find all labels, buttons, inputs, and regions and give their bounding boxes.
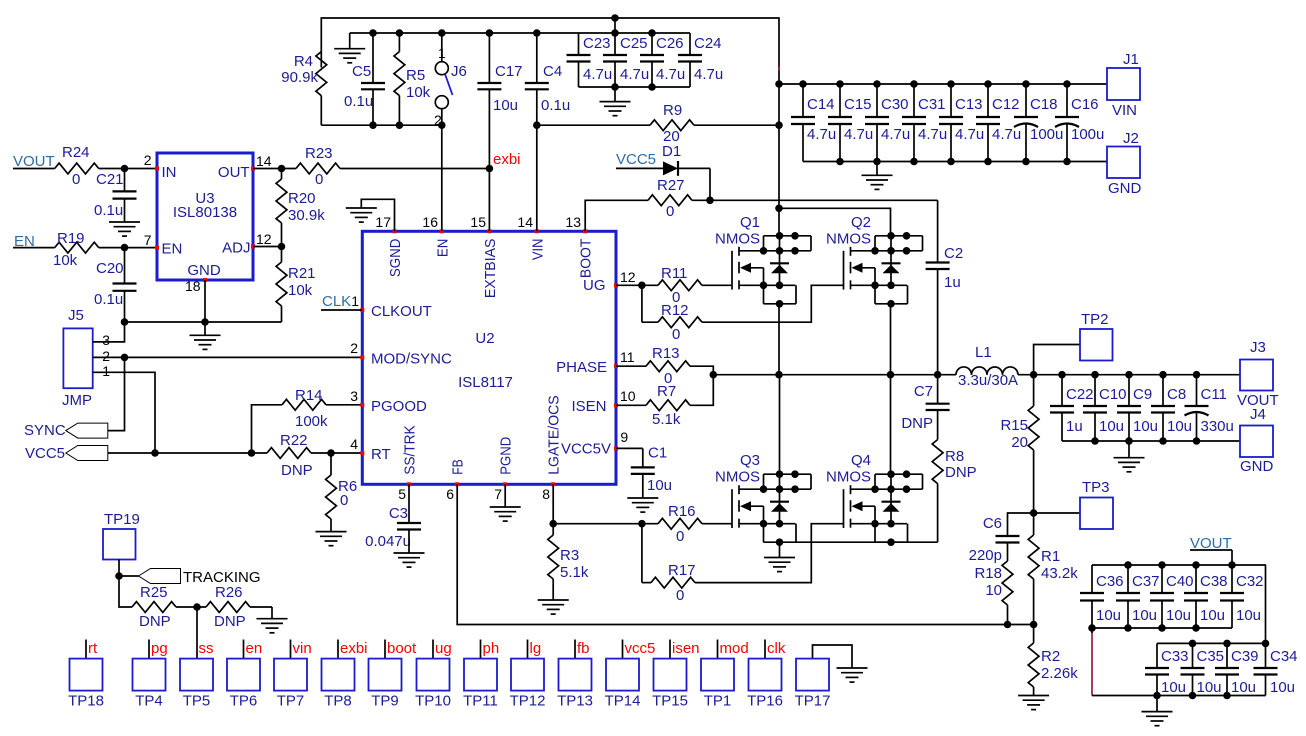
svg-text:C25: C25 xyxy=(620,35,648,52)
ground under C25 xyxy=(600,87,631,116)
net label VOUT at sense bank xyxy=(1190,535,1232,565)
svg-text:0: 0 xyxy=(666,203,674,220)
svg-text:rt: rt xyxy=(88,640,98,657)
resistor R6 xyxy=(326,453,358,532)
svg-text:R16: R16 xyxy=(668,503,696,520)
svg-text:lg: lg xyxy=(530,640,542,657)
svg-text:10u: 10u xyxy=(1099,418,1124,435)
svg-text:C23: C23 xyxy=(583,35,611,52)
wire R17 to Q4 gate xyxy=(695,524,844,583)
svg-text:C39: C39 xyxy=(1231,648,1259,665)
svg-text:NMOS: NMOS xyxy=(715,231,760,248)
svg-text:L1: L1 xyxy=(975,344,992,361)
svg-text:R19: R19 xyxy=(57,230,85,247)
svg-text:D1: D1 xyxy=(662,143,681,160)
svg-text:9: 9 xyxy=(620,429,628,445)
svg-text:10u: 10u xyxy=(1231,679,1256,696)
capacitor C22 xyxy=(1050,371,1094,441)
svg-text:TP17: TP17 xyxy=(795,693,831,710)
resistor R19 xyxy=(53,230,157,269)
test point TP4 xyxy=(133,640,168,710)
svg-text:C21: C21 xyxy=(96,171,124,188)
test point TP3 xyxy=(1030,479,1113,529)
svg-text:C37: C37 xyxy=(1132,573,1160,590)
connector J4 xyxy=(1240,406,1274,475)
svg-text:U2: U2 xyxy=(475,330,494,347)
test point TP1 xyxy=(701,640,749,710)
svg-text:C35: C35 xyxy=(1197,648,1225,665)
capacitor C37 xyxy=(1116,565,1160,628)
svg-text:C9: C9 xyxy=(1133,386,1152,403)
svg-text:TP12: TP12 xyxy=(510,693,546,710)
ground near C5 xyxy=(334,33,365,63)
svg-text:Q4: Q4 xyxy=(851,452,871,469)
connector J3 xyxy=(1237,339,1279,409)
svg-text:J3: J3 xyxy=(1250,339,1266,356)
test point TP16 xyxy=(747,640,786,710)
wire EN pin riser xyxy=(441,125,443,231)
wire sense bank top rail xyxy=(1092,561,1266,569)
svg-text:0: 0 xyxy=(72,171,80,188)
svg-text:C15: C15 xyxy=(844,96,872,113)
capacitor C9 xyxy=(1117,371,1158,441)
svg-text:TP18: TP18 xyxy=(68,693,104,710)
test point TP8 xyxy=(322,640,368,710)
svg-text:DNP: DNP xyxy=(214,613,246,630)
svg-text:exbi: exbi xyxy=(493,151,521,168)
svg-text:DNP: DNP xyxy=(139,613,171,630)
svg-text:C1: C1 xyxy=(648,445,667,462)
svg-text:1: 1 xyxy=(438,45,446,61)
ground SGND xyxy=(346,208,377,222)
wire ss to TP5 xyxy=(196,607,198,659)
wire output bank bottom rail xyxy=(1062,437,1240,445)
svg-text:ISEN: ISEN xyxy=(571,398,606,415)
svg-text:vcc5: vcc5 xyxy=(625,640,656,657)
svg-text:0: 0 xyxy=(340,492,348,509)
resistor R8 xyxy=(932,440,976,543)
test point TP17 xyxy=(795,645,852,710)
capacitor C13 xyxy=(939,80,984,161)
net label CLK xyxy=(321,293,362,310)
svg-text:R11: R11 xyxy=(661,265,687,282)
svg-text:RT: RT xyxy=(371,446,391,463)
svg-text:10u: 10u xyxy=(647,477,672,494)
resistor R13 xyxy=(616,345,713,387)
diode D1 xyxy=(662,143,710,176)
svg-text:VOUT: VOUT xyxy=(13,153,55,170)
wire Q1 to phase xyxy=(778,304,780,375)
svg-text:R1: R1 xyxy=(1041,548,1060,565)
test point TP9 xyxy=(369,640,418,710)
svg-text:C10: C10 xyxy=(1099,386,1127,403)
svg-text:4: 4 xyxy=(350,436,358,452)
resistor R7 xyxy=(616,375,713,428)
svg-text:10u: 10u xyxy=(1132,607,1157,624)
svg-text:10u: 10u xyxy=(1166,607,1191,624)
svg-text:1: 1 xyxy=(102,363,110,379)
IC U2 ISL8117 xyxy=(350,214,636,502)
svg-text:R21: R21 xyxy=(288,265,316,282)
svg-text:PGND: PGND xyxy=(498,437,515,475)
svg-text:5.1k: 5.1k xyxy=(652,411,681,428)
ground VIN bank xyxy=(862,162,893,190)
transistor Q4 xyxy=(826,452,923,546)
capacitor C34 xyxy=(1254,643,1298,696)
svg-text:ph: ph xyxy=(483,640,500,657)
svg-text:ug: ug xyxy=(435,640,452,657)
svg-text:12: 12 xyxy=(256,231,272,247)
svg-text:DNP: DNP xyxy=(945,464,977,481)
wire second rail xyxy=(350,32,690,34)
svg-text:TP10: TP10 xyxy=(415,693,451,710)
ground under C3 xyxy=(394,530,425,568)
svg-text:0: 0 xyxy=(672,326,680,343)
wire L1 to output rail xyxy=(1018,374,1240,376)
svg-text:R13: R13 xyxy=(652,345,680,362)
wire second sense bank bottom rail xyxy=(1092,692,1266,700)
svg-text:0.1u: 0.1u xyxy=(344,93,373,110)
svg-text:0: 0 xyxy=(315,171,323,188)
svg-text:Q1: Q1 xyxy=(740,214,760,231)
svg-text:C33: C33 xyxy=(1161,648,1189,665)
svg-text:IN: IN xyxy=(162,164,177,181)
svg-text:TP9: TP9 xyxy=(371,693,399,710)
test point TP12 xyxy=(510,640,546,710)
svg-text:R15: R15 xyxy=(1000,417,1028,434)
svg-text:C11: C11 xyxy=(1201,386,1227,403)
svg-text:4.7u: 4.7u xyxy=(807,126,836,143)
svg-text:FB: FB xyxy=(450,459,467,475)
resistor R17 xyxy=(642,524,696,604)
svg-text:C6: C6 xyxy=(983,515,1002,532)
ground under C21 xyxy=(109,199,140,237)
svg-text:J6: J6 xyxy=(451,63,467,80)
wire J5 pin1 to VCC5 xyxy=(93,372,159,457)
IC U3 ISL80138 xyxy=(144,152,272,294)
svg-text:R7: R7 xyxy=(657,383,676,400)
capacitor C20 xyxy=(94,248,137,322)
svg-text:Q3: Q3 xyxy=(740,452,760,469)
svg-text:TP6: TP6 xyxy=(230,693,258,710)
ground second sense bank xyxy=(1142,696,1173,726)
svg-text:NMOS: NMOS xyxy=(826,469,871,486)
svg-text:10u: 10u xyxy=(1167,418,1192,435)
svg-text:VCC5V: VCC5V xyxy=(561,441,611,458)
test point TP2 xyxy=(1034,311,1113,375)
svg-text:TP2: TP2 xyxy=(1081,311,1109,328)
wire link top wire to bank xyxy=(614,18,616,33)
resistor R22 xyxy=(267,432,362,479)
wire bank bottom rail xyxy=(579,29,691,91)
svg-text:1: 1 xyxy=(351,293,359,309)
transistor Q3 xyxy=(715,452,811,546)
svg-text:18: 18 xyxy=(185,278,201,294)
svg-text:C8: C8 xyxy=(1167,386,1186,403)
svg-text:EN: EN xyxy=(162,241,183,258)
svg-text:J1: J1 xyxy=(1123,51,1139,68)
svg-text:10k: 10k xyxy=(406,84,431,101)
ground under R2 xyxy=(1018,696,1049,710)
svg-text:90.9k: 90.9k xyxy=(281,69,318,86)
capacitor C12 xyxy=(976,80,1021,161)
capacitor C36 xyxy=(1080,565,1124,628)
svg-text:LGATE/OCS: LGATE/OCS xyxy=(546,395,563,475)
wire VIN feed xyxy=(533,121,650,129)
svg-text:43.2k: 43.2k xyxy=(1041,565,1078,582)
svg-text:TP15: TP15 xyxy=(652,693,688,710)
wire BOOT riser xyxy=(585,200,648,231)
svg-text:NMOS: NMOS xyxy=(715,469,760,486)
resistor R16 xyxy=(658,503,732,545)
svg-text:C20: C20 xyxy=(96,260,124,277)
connector J2 xyxy=(1107,130,1142,197)
resistor R4 xyxy=(281,52,326,126)
wire sense bank right drop xyxy=(1265,565,1267,643)
svg-text:5: 5 xyxy=(398,486,406,502)
svg-text:C18: C18 xyxy=(1030,96,1058,113)
svg-text:TP7: TP7 xyxy=(277,693,305,710)
wire J5 pin2 to MOD/SYNC xyxy=(93,354,363,362)
svg-text:10u: 10u xyxy=(1270,679,1295,696)
svg-text:TP4: TP4 xyxy=(135,693,163,710)
test point TP5 xyxy=(180,640,214,710)
capacitor C14 xyxy=(791,80,836,161)
port TRACKING xyxy=(115,569,260,587)
svg-text:R22: R22 xyxy=(280,432,308,449)
wire Q3 drain riser xyxy=(779,375,781,475)
wire VIN rail xyxy=(779,83,1107,85)
svg-text:4.7u: 4.7u xyxy=(656,66,685,83)
capacitor C21 xyxy=(94,165,137,219)
wire U3 GND pin xyxy=(204,280,206,322)
svg-text:16: 16 xyxy=(422,214,438,230)
svg-text:R17: R17 xyxy=(668,562,696,579)
wire U3 bottom rail xyxy=(121,318,282,326)
svg-text:DNP: DNP xyxy=(901,415,933,432)
capacitor C26 xyxy=(640,33,685,87)
svg-text:C22: C22 xyxy=(1066,386,1094,403)
svg-text:10u: 10u xyxy=(1133,418,1158,435)
capacitor C5 xyxy=(344,33,385,125)
svg-text:EN: EN xyxy=(434,239,451,258)
svg-text:10u: 10u xyxy=(1236,607,1261,624)
ground under C1 xyxy=(627,474,658,512)
svg-text:10k: 10k xyxy=(288,282,313,299)
svg-text:4.7u: 4.7u xyxy=(881,126,910,143)
inductor L1 xyxy=(956,344,1037,389)
svg-text:3.3u/30A: 3.3u/30A xyxy=(958,372,1018,389)
svg-text:C40: C40 xyxy=(1166,573,1194,590)
test point TP15 xyxy=(652,640,699,710)
svg-text:R26: R26 xyxy=(215,584,243,601)
ground PGND pin xyxy=(490,484,521,521)
capacitor C18 xyxy=(1014,80,1063,161)
test point TP14 xyxy=(605,640,656,710)
wire UG pin xyxy=(616,282,658,290)
svg-text:GND: GND xyxy=(1108,180,1142,197)
svg-text:R3: R3 xyxy=(560,547,579,564)
svg-text:4.7u: 4.7u xyxy=(620,66,649,83)
wire VIN vertical to Q1 xyxy=(778,67,780,236)
resistor R26 xyxy=(206,584,272,630)
svg-text:TP1: TP1 xyxy=(704,693,732,710)
svg-text:ADJ: ADJ xyxy=(222,240,250,257)
svg-text:100u: 100u xyxy=(1030,126,1063,143)
svg-text:4.7u: 4.7u xyxy=(992,126,1021,143)
svg-text:TP14: TP14 xyxy=(605,693,641,710)
test point TP6 xyxy=(227,640,262,710)
net label VCC5 at D1 xyxy=(616,151,663,168)
svg-text:Q2: Q2 xyxy=(851,214,871,231)
svg-text:220p: 220p xyxy=(969,547,1002,564)
svg-text:NMOS: NMOS xyxy=(826,231,871,248)
wire ADJ pin xyxy=(253,243,285,251)
svg-text:en: en xyxy=(246,640,263,657)
svg-text:100u: 100u xyxy=(1071,126,1104,143)
svg-text:R25: R25 xyxy=(140,584,168,601)
svg-text:10: 10 xyxy=(985,582,1002,599)
resistor R14 xyxy=(248,387,363,457)
svg-text:10u: 10u xyxy=(1161,679,1186,696)
svg-text:R20: R20 xyxy=(288,190,316,207)
test point TP13 xyxy=(557,640,593,710)
svg-text:BOOT: BOOT xyxy=(578,239,595,279)
svg-text:J5: J5 xyxy=(68,307,84,324)
ground under Q3 xyxy=(764,542,795,571)
svg-text:CLK: CLK xyxy=(322,293,351,310)
svg-text:C17: C17 xyxy=(495,63,523,80)
svg-text:VIN: VIN xyxy=(1112,102,1137,119)
svg-text:20: 20 xyxy=(1011,434,1028,451)
svg-text:VCC5: VCC5 xyxy=(616,151,656,168)
svg-text:30.9k: 30.9k xyxy=(288,207,325,224)
wire top rail xyxy=(321,18,779,84)
wire PHASE rail xyxy=(710,371,957,379)
resistor R3 xyxy=(548,524,589,600)
svg-text:TP13: TP13 xyxy=(557,693,593,710)
wire Q4 drain riser xyxy=(890,375,892,475)
svg-text:C7: C7 xyxy=(914,383,933,400)
capacitor C16 xyxy=(1055,80,1104,161)
resistor R12 xyxy=(642,285,702,343)
svg-text:10u: 10u xyxy=(1200,607,1225,624)
ground output bank xyxy=(1114,441,1145,472)
svg-text:0.1u: 0.1u xyxy=(541,97,570,114)
svg-text:2: 2 xyxy=(350,340,358,356)
svg-text:C3: C3 xyxy=(389,505,408,522)
resistor R20 xyxy=(276,169,325,247)
resistor R24 xyxy=(55,144,157,188)
svg-text:SGND: SGND xyxy=(387,238,404,277)
svg-text:6: 6 xyxy=(446,486,454,502)
capacitor C25 xyxy=(603,33,649,87)
svg-text:15: 15 xyxy=(470,214,486,230)
test point TP7 xyxy=(274,640,312,710)
svg-text:0.1u: 0.1u xyxy=(94,291,123,308)
capacitor C3 xyxy=(365,484,421,550)
svg-text:R12: R12 xyxy=(661,302,689,319)
svg-text:boot: boot xyxy=(387,640,417,657)
wire maroon link xyxy=(1091,628,1093,696)
svg-text:C12: C12 xyxy=(992,96,1020,113)
svg-text:TP8: TP8 xyxy=(324,693,352,710)
svg-text:OUT: OUT xyxy=(218,164,250,181)
svg-text:R27: R27 xyxy=(657,177,685,194)
svg-text:TP11: TP11 xyxy=(463,693,498,710)
svg-text:0: 0 xyxy=(676,528,684,545)
svg-text:CLKOUT: CLKOUT xyxy=(371,303,432,320)
jumper J6 xyxy=(434,33,467,128)
connector J1 xyxy=(1107,51,1140,119)
net label EN xyxy=(13,233,55,250)
resistor R15 xyxy=(1000,375,1039,513)
capacitor C31 xyxy=(902,80,947,161)
wire FB rail xyxy=(457,484,1037,628)
svg-text:R5: R5 xyxy=(406,67,425,84)
resistor R18 xyxy=(974,543,1012,625)
svg-text:0: 0 xyxy=(676,587,684,604)
svg-text:100k: 100k xyxy=(295,413,328,430)
capacitor C17 xyxy=(477,33,522,114)
resistor R5 xyxy=(394,33,431,125)
capacitor C30 xyxy=(865,80,910,161)
svg-text:R24: R24 xyxy=(62,144,90,161)
junction dots top rails xyxy=(369,14,619,129)
resistor R9 xyxy=(650,80,783,145)
svg-text:10u: 10u xyxy=(1197,679,1222,696)
svg-text:17: 17 xyxy=(375,214,391,230)
svg-text:8: 8 xyxy=(542,486,550,502)
resistor R21 xyxy=(276,247,315,323)
svg-text:GND: GND xyxy=(187,262,221,279)
svg-text:R9: R9 xyxy=(663,102,682,119)
svg-text:4.7u: 4.7u xyxy=(694,66,723,83)
svg-text:isen: isen xyxy=(672,640,700,657)
svg-text:C16: C16 xyxy=(1071,96,1099,113)
svg-text:10k: 10k xyxy=(53,252,78,269)
capacitor C33 xyxy=(1145,643,1189,696)
svg-text:3: 3 xyxy=(102,332,110,348)
svg-text:C34: C34 xyxy=(1270,648,1298,665)
svg-text:3: 3 xyxy=(350,388,358,404)
svg-text:TP3: TP3 xyxy=(1082,479,1110,496)
connector J5 xyxy=(62,307,110,409)
wire J5 pin3 xyxy=(93,322,125,342)
wire second sense bank top rail xyxy=(1157,640,1269,648)
ground under R6 xyxy=(316,532,347,546)
svg-text:14: 14 xyxy=(256,153,272,169)
svg-text:0.1u: 0.1u xyxy=(94,202,123,219)
svg-text:4.7u: 4.7u xyxy=(955,126,984,143)
svg-text:C14: C14 xyxy=(807,96,835,113)
svg-text:4.7u: 4.7u xyxy=(918,126,947,143)
svg-text:VIN: VIN xyxy=(529,239,546,261)
svg-text:vin: vin xyxy=(293,640,312,657)
svg-text:ISL8117: ISL8117 xyxy=(458,374,513,391)
svg-text:1u: 1u xyxy=(1066,418,1083,435)
capacitor C38 xyxy=(1184,565,1228,628)
svg-text:PHASE: PHASE xyxy=(556,359,607,376)
ground under U3 xyxy=(190,322,221,349)
svg-text:R4: R4 xyxy=(294,53,313,70)
svg-text:R8: R8 xyxy=(945,448,964,465)
capacitor C7 xyxy=(901,375,949,440)
capacitor C35 xyxy=(1181,643,1225,696)
capacitor C15 xyxy=(828,80,873,161)
capacitor C10 xyxy=(1083,371,1127,441)
capacitor C32 xyxy=(1220,565,1264,628)
